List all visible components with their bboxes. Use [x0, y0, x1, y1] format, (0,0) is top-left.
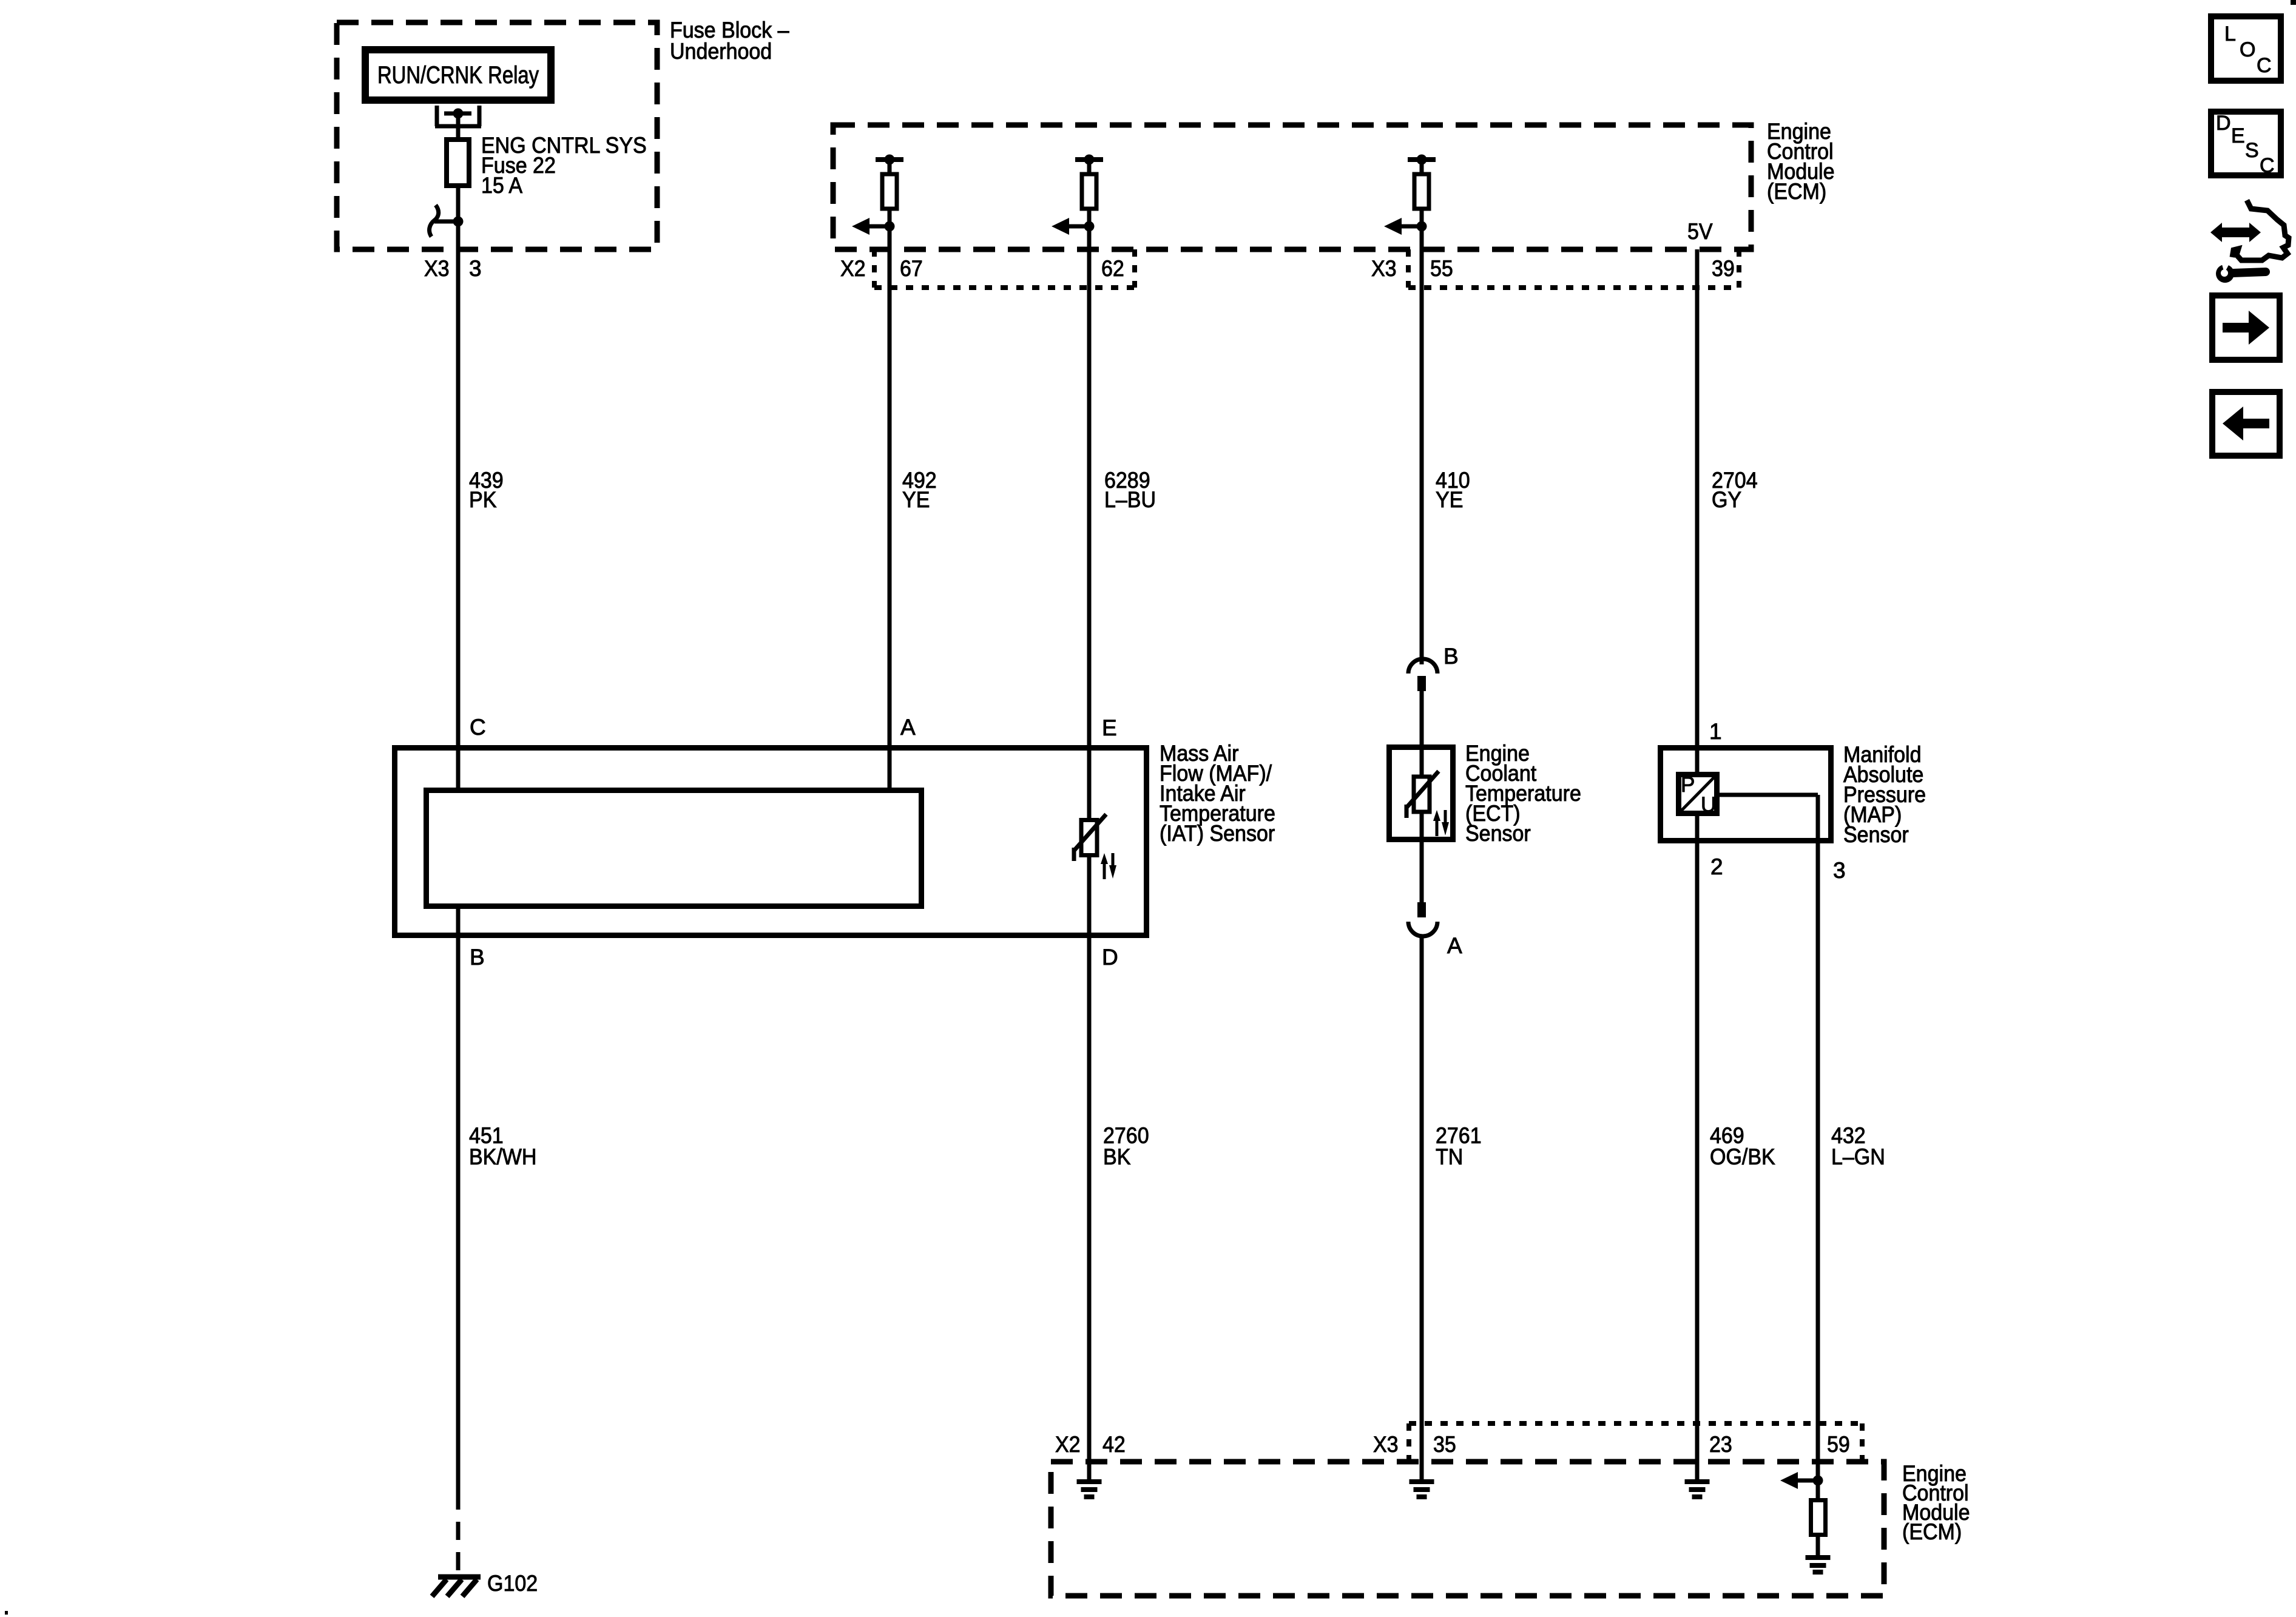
svg-text:GY: GY [1712, 487, 1741, 512]
svg-text:39: 39 [1712, 256, 1735, 281]
svg-text:Sensor: Sensor [1465, 821, 1531, 846]
svg-text:L–GN: L–GN [1831, 1144, 1885, 1169]
wire 432 L-GN (MAP pin 3 to ECM 59) [1816, 795, 1820, 1500]
wire 439 PK (fuse to MAF pin C) [456, 221, 461, 790]
wire 451 BK/WH dashed segment to G102 [456, 1491, 461, 1578]
svg-text:X3: X3 [1373, 1432, 1399, 1457]
svg-text:X2: X2 [1055, 1432, 1081, 1457]
svg-text:PK: PK [469, 487, 497, 512]
svg-text:L–BU: L–BU [1104, 487, 1156, 512]
ECT sensor box [1389, 748, 1453, 840]
wire 410 YE (connector B to ECT) [1420, 691, 1424, 777]
svg-text:35: 35 [1433, 1432, 1456, 1457]
wire 2704 GY (ECM 39 5V to MAP pin 1) [1695, 249, 1700, 774]
ECT connector A [1417, 902, 1426, 917]
svg-text:RUN/CRNK Relay: RUN/CRNK Relay [377, 62, 539, 89]
wire relay output to fuse [456, 113, 461, 140]
ECM top dashed box [833, 125, 1751, 249]
svg-text:S: S [2245, 139, 2259, 162]
wire 410 YE (ECM 55 to connector B) [1420, 160, 1424, 664]
svg-text:(ECM): (ECM) [1902, 1519, 1962, 1544]
svg-text:42: 42 [1102, 1432, 1126, 1457]
ECM bottom dotted pin box [1409, 1423, 1862, 1462]
MAP sensor box [1661, 748, 1831, 841]
svg-text:G102: G102 [487, 1571, 538, 1596]
wire MAP P/U output to pin 3 (horizontal) [1720, 793, 1818, 797]
fuse holder bracket [435, 106, 481, 126]
MAP P/U transducer [1678, 773, 1717, 817]
icon arrow left [2212, 392, 2280, 456]
ECT connector B [1408, 659, 1437, 673]
svg-text:X3: X3 [424, 256, 450, 281]
wire 2761 TN (connector A to ECM 35 ground) [1420, 936, 1424, 1482]
wire resistor to ground (ECM 59) [1816, 1536, 1820, 1555]
svg-text:Sensor: Sensor [1843, 822, 1909, 847]
wire 2761 TN (ECT to connector A) [1420, 810, 1424, 902]
ECT thermistor [1406, 771, 1449, 836]
svg-text:E: E [2231, 124, 2245, 147]
svg-text:C: C [470, 715, 486, 740]
svg-text:62: 62 [1101, 256, 1124, 281]
wire 2760 BK (IAT thermistor to ECM 42 ground) [1087, 852, 1092, 1482]
svg-text:5V: 5V [1687, 219, 1713, 244]
svg-text:BK: BK [1103, 1144, 1131, 1169]
switch hook at junction [430, 205, 439, 237]
svg-text:B: B [1443, 644, 1459, 669]
svg-text:YE: YE [1436, 487, 1463, 512]
wire 469 OG/BK (MAP pin 2 to ECM 23 ground) [1695, 814, 1700, 1482]
ECM pin row dotted box X3 [1408, 249, 1739, 288]
fuse block underhood dashed box [337, 22, 657, 249]
resistor R4 (ECM internal, 59) [1780, 1472, 1826, 1535]
svg-text:C: C [2257, 54, 2272, 77]
MAF/IAT sensor box [395, 748, 1147, 936]
icon LOC [2211, 16, 2281, 81]
svg-text:55: 55 [1430, 256, 1453, 281]
svg-text:1: 1 [1709, 719, 1722, 744]
IAT thermistor [1074, 814, 1116, 879]
svg-text:L: L [2224, 22, 2236, 46]
svg-text:3: 3 [469, 256, 482, 281]
ground G102 (chassis) [432, 1577, 481, 1596]
svg-text:O: O [2240, 38, 2255, 61]
svg-text:B: B [470, 945, 485, 970]
svg-text:Underhood: Underhood [670, 39, 772, 64]
wire fuse to junction [456, 186, 461, 221]
fuse F22 ENG CNTRL SYS [447, 140, 469, 186]
ground (ECM 59) [1806, 1558, 1831, 1572]
wire 492 YE (ECM 67 to MAF pin A) [888, 160, 892, 790]
svg-text:15 A: 15 A [481, 173, 522, 198]
resistor R3 (ECM pullup, 55) [1384, 155, 1436, 235]
svg-text:OG/BK: OG/BK [1710, 1144, 1775, 1169]
icon arrow right [2212, 295, 2280, 360]
junction node [453, 217, 464, 227]
svg-text:67: 67 [900, 256, 923, 281]
ground (ECM 23) [1685, 1482, 1710, 1497]
resistor R1 (ECM pullup, 67) [852, 155, 903, 235]
relay RUN/CRNK [365, 50, 551, 100]
svg-text:(IAT) Sensor: (IAT) Sensor [1160, 821, 1275, 846]
svg-text:A: A [900, 715, 916, 740]
wire 451 BK/WH (MAF pin B down) [456, 906, 461, 1491]
ECM pin row dotted box X2 [874, 249, 1135, 288]
svg-text:P: P [1681, 773, 1695, 797]
wire 6289 L-BU (ECM 62 to IAT thermistor) [1087, 160, 1092, 820]
svg-text:X2: X2 [840, 256, 866, 281]
resistor R2 (ECM pullup, 62) [1052, 155, 1103, 235]
svg-text:59: 59 [1827, 1432, 1850, 1457]
svg-text:A: A [1447, 933, 1462, 958]
svg-text:23: 23 [1709, 1432, 1732, 1457]
icon wiring/wrench [2210, 200, 2289, 283]
svg-text:BK/WH: BK/WH [469, 1144, 536, 1169]
svg-text:C: C [2260, 154, 2275, 177]
svg-text:D: D [1102, 945, 1118, 970]
ECM bottom dashed box [1051, 1462, 1884, 1596]
svg-text:U: U [1701, 793, 1716, 817]
MAF inner element box [427, 791, 922, 906]
svg-text:2: 2 [1710, 854, 1723, 879]
svg-text:3: 3 [1833, 858, 1846, 883]
svg-text:E: E [1102, 715, 1117, 740]
svg-text:TN: TN [1436, 1144, 1463, 1169]
svg-text:(ECM): (ECM) [1767, 179, 1826, 204]
ground (ECM 35) [1410, 1482, 1434, 1497]
corner marks [2291, 0, 2296, 5]
ground (ECM 42) [1077, 1482, 1102, 1497]
svg-text:X3: X3 [1371, 256, 1397, 281]
svg-text:YE: YE [902, 487, 930, 512]
svg-text:D: D [2216, 112, 2231, 135]
icon DESC [2211, 112, 2281, 175]
